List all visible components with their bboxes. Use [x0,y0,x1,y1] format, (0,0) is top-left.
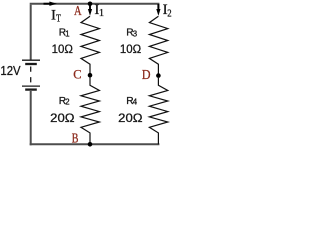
wire top segment [30,3,160,5]
node D [156,73,161,78]
node B [88,142,93,147]
svg-text:D: D [142,67,151,82]
wire left upper segment [30,5,32,60]
resistor R4 [149,78,167,145]
battery B1 [22,60,40,89]
svg-text:20Ω: 20Ω [50,111,74,125]
resistor R1 [81,16,99,73]
svg-text:10Ω: 10Ω [120,42,141,56]
wire bottom segment [30,143,160,145]
svg-text:10Ω: 10Ω [52,42,73,56]
svg-text:2: 2 [167,8,171,19]
node A [88,2,93,7]
svg-text:1: 1 [99,8,104,19]
svg-text:20Ω: 20Ω [118,111,142,125]
wire right upper stub [157,4,159,9]
svg-text:1: 1 [65,29,69,38]
svg-text:3: 3 [133,29,137,38]
arrow I1 [88,4,92,16]
svg-text:2: 2 [65,98,69,107]
arrow IT [44,2,57,6]
svg-text:B: B [72,131,79,146]
resistor R3 [149,16,167,73]
node C [88,73,93,78]
resistor R2 [81,77,99,143]
svg-text:A: A [74,3,82,18]
svg-text:4: 4 [133,98,138,107]
svg-text:12V: 12V [0,64,21,78]
arrow I2 [156,4,160,16]
svg-text:T: T [56,14,62,25]
svg-text:C: C [73,68,81,82]
wire left lower segment [30,91,32,145]
